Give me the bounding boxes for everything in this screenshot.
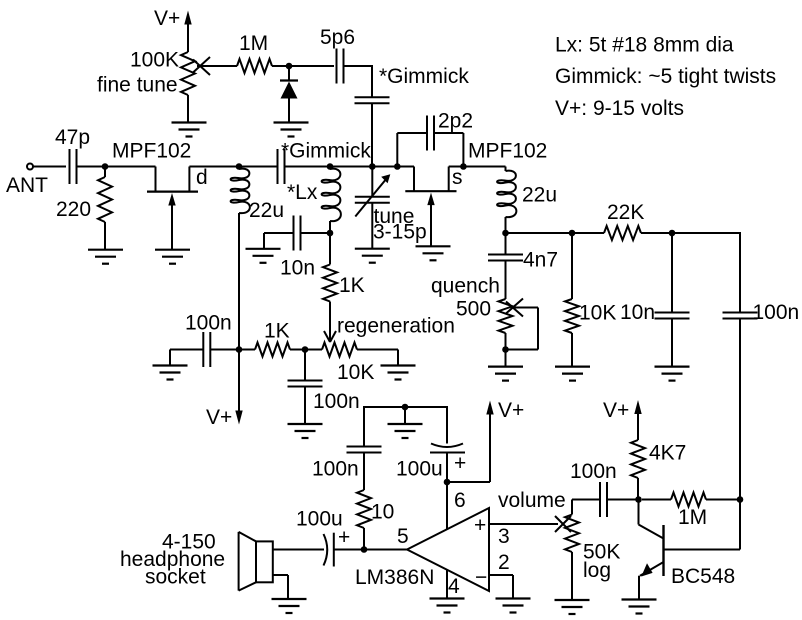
transistor Q2 gate arrow bbox=[430, 199, 432, 247]
ground under speaker bbox=[272, 599, 307, 613]
wire 47p to JFET1 bbox=[77, 166, 156, 168]
resistor 4K7 bbox=[631, 440, 645, 478]
wire 2p2 left branch bbox=[396, 133, 398, 167]
wire 4n7 to 500 pot bbox=[505, 261, 507, 300]
transistor Q3 emitter bbox=[640, 562, 664, 576]
wire 500 wiper loop bbox=[511, 307, 538, 309]
wire rail to gimmick2 bbox=[239, 166, 278, 168]
svg-text:220: 220 bbox=[56, 198, 91, 221]
wire pin3 to volume bbox=[489, 523, 558, 525]
svg-text:10n: 10n bbox=[280, 257, 315, 280]
wire 5p6 to gimmick bbox=[344, 65, 373, 67]
svg-text:MPF102: MPF102 bbox=[112, 140, 191, 163]
diode D1 ground lead bbox=[288, 98, 290, 123]
ground under pin4 bbox=[430, 599, 465, 613]
ground under 500 pot bbox=[488, 367, 523, 381]
wire 100n right down bbox=[739, 319, 741, 500]
wire 1K to 10K pot bbox=[290, 349, 322, 351]
capacitor 5p6 bbox=[336, 49, 338, 84]
wire V+ feed down bbox=[238, 350, 240, 411]
transistor Q1 MPF102 body bbox=[155, 167, 157, 192]
node junction pin6 bbox=[444, 479, 451, 486]
node junction 10K top bbox=[569, 230, 576, 237]
node junction collector bbox=[635, 496, 642, 503]
node junction rail ground stub bbox=[402, 404, 409, 411]
svg-text:3: 3 bbox=[498, 525, 510, 548]
ground under diode bbox=[274, 123, 309, 137]
node junction source bbox=[460, 163, 467, 170]
svg-text:socket: socket bbox=[145, 566, 206, 589]
svg-text:4n7: 4n7 bbox=[523, 249, 558, 272]
ground under 100K pot bbox=[172, 123, 207, 137]
ground right of 10K regen bbox=[381, 366, 416, 380]
ground under BC548 bbox=[622, 600, 657, 614]
ground under Q1 gate bbox=[155, 250, 190, 264]
wire V+ to pin6 node bbox=[447, 481, 490, 483]
inductor 22u left bbox=[231, 169, 250, 214]
resistor 1M feedback bbox=[642, 499, 671, 501]
wire tune cap top bbox=[371, 167, 373, 197]
inductor *Lx bbox=[322, 169, 341, 222]
svg-text:100n: 100n bbox=[313, 390, 360, 413]
svg-text:V+: 9-15 volts: V+: 9-15 volts bbox=[555, 97, 684, 120]
svg-text:1K: 1K bbox=[339, 274, 365, 297]
wire pin6 bbox=[446, 482, 448, 530]
wire row to 10K bbox=[506, 232, 605, 234]
svg-text:47p: 47p bbox=[55, 126, 90, 149]
wire 2p2 right branch bbox=[434, 132, 464, 134]
wire 10n to node bbox=[301, 232, 331, 234]
capacitor *Gimmick coupling bbox=[277, 149, 279, 184]
svg-text:100u: 100u bbox=[396, 458, 443, 481]
capacitor 100n supply bbox=[347, 446, 382, 448]
potentiometer 10K regen body bbox=[322, 343, 357, 357]
ground under 10n quench bbox=[655, 367, 690, 381]
wire speaker to ground bbox=[273, 574, 288, 576]
svg-text:LM386N: LM386N bbox=[355, 566, 434, 589]
svg-text:500: 500 bbox=[456, 298, 491, 321]
capacitor 47p bbox=[69, 149, 71, 184]
capacitor 100n af bbox=[599, 482, 601, 517]
svg-text:Gimmick: ~5 tight twists: Gimmick: ~5 tight twists bbox=[555, 65, 776, 88]
svg-text:*Lx: *Lx bbox=[287, 181, 318, 204]
power V+ BC548 arrow bbox=[634, 400, 641, 414]
potentiometer 500 wiper bbox=[506, 299, 523, 314]
power V+ LM386 arrow bbox=[486, 401, 493, 415]
svg-text:V+: V+ bbox=[498, 399, 524, 422]
node junction base right bbox=[737, 496, 744, 503]
capacitor 4n7 bbox=[505, 233, 507, 255]
svg-text:1K: 1K bbox=[264, 320, 290, 343]
svg-text:6: 6 bbox=[454, 489, 466, 512]
wire Q2 source to node bbox=[449, 166, 506, 168]
ground under 10n tap bbox=[246, 249, 281, 263]
capacitor 100n regen bbox=[202, 332, 204, 367]
capacitor 100u output bbox=[324, 534, 328, 566]
capacitor 10n quench bbox=[671, 233, 673, 313]
node junction gate Q2 bbox=[394, 163, 401, 170]
terminal ANT bbox=[27, 164, 33, 170]
wire 10n to ground bbox=[264, 232, 294, 234]
capacitor 100n regen bypass bbox=[304, 350, 306, 381]
node junction 47p/220 bbox=[102, 163, 109, 170]
node junction 1M/diode/5p6 bbox=[286, 63, 293, 70]
ground left of 100n regen bbox=[153, 366, 188, 380]
variable capacitor tune 3-15p bbox=[355, 196, 390, 198]
wire base branch bbox=[739, 500, 741, 550]
wire 22K to 10n2 bbox=[641, 232, 740, 234]
potentiometer 100K fine tune body bbox=[181, 52, 195, 95]
wire pot bottom to ground bbox=[187, 95, 189, 123]
node junction 10n2 top bbox=[669, 230, 676, 237]
svg-text:1M: 1M bbox=[239, 32, 268, 55]
svg-text:+: + bbox=[454, 452, 466, 475]
ground under 50K bbox=[555, 600, 590, 614]
wire 22u2 to node bbox=[505, 217, 507, 233]
svg-text:100K: 100K bbox=[130, 49, 179, 72]
ground under tune cap bbox=[355, 249, 390, 263]
svg-text:V+: V+ bbox=[154, 7, 180, 30]
svg-text:5: 5 bbox=[397, 525, 409, 548]
node junction pin5/10ohm bbox=[361, 546, 368, 553]
wire 100u to pin6 node bbox=[446, 453, 448, 483]
svg-text:MPF102: MPF102 bbox=[468, 140, 547, 163]
transistor Q2 MPF102 body bbox=[413, 167, 415, 192]
node junction 500 bottom bbox=[502, 346, 509, 353]
ground under Q2 gate bbox=[416, 246, 451, 260]
wire wiper to 1M bbox=[197, 65, 237, 67]
svg-text:1M: 1M bbox=[678, 506, 707, 529]
svg-text:quench: quench bbox=[431, 275, 500, 298]
resistor 1K regen bbox=[255, 343, 290, 357]
svg-text:V+: V+ bbox=[206, 406, 232, 429]
svg-text:22u: 22u bbox=[522, 184, 557, 207]
potentiometer 500 body bbox=[499, 299, 513, 333]
svg-text:d: d bbox=[196, 166, 208, 189]
wire ground to 100n regen bbox=[169, 350, 171, 366]
svg-text:volume: volume bbox=[498, 489, 566, 512]
potentiometer 100K wiper arrow bbox=[193, 57, 210, 73]
node junction regen tap bbox=[302, 346, 309, 353]
diode D1 bbox=[280, 79, 298, 81]
capacitor 10n tap bbox=[293, 216, 295, 251]
svg-text:22K: 22K bbox=[607, 201, 644, 224]
svg-text:−: − bbox=[475, 566, 487, 589]
wire 22u down to regen row bbox=[238, 213, 240, 350]
wire gimmick to tank rail bbox=[371, 103, 373, 166]
capacitor 2p2 bbox=[426, 116, 428, 151]
node junction drain/22u bbox=[236, 163, 243, 170]
wire LM386 top rail bbox=[363, 408, 365, 446]
wire 1M to node bbox=[272, 65, 334, 67]
svg-text:100n: 100n bbox=[185, 312, 232, 335]
svg-text:2p2: 2p2 bbox=[438, 110, 473, 133]
ground under rail bbox=[388, 424, 423, 438]
svg-text:10n: 10n bbox=[620, 301, 655, 324]
svg-text:2: 2 bbox=[498, 551, 510, 574]
wire right branch down bbox=[739, 232, 741, 313]
op-amp U1 LM386N triangle bbox=[407, 508, 489, 591]
ground under pin2 bbox=[496, 599, 531, 613]
svg-text:+: + bbox=[338, 526, 350, 549]
ground under 220 bbox=[88, 250, 123, 264]
wire rail ground stub bbox=[404, 407, 406, 424]
wire Q1 drain to node bbox=[189, 166, 239, 168]
transistor Q1 gate arrow bbox=[171, 199, 173, 250]
svg-text:V+: V+ bbox=[603, 399, 629, 422]
potentiometer 50K wiper arrow bbox=[555, 516, 571, 532]
node junction Lx bottom bbox=[327, 230, 334, 237]
node junction Lx top bbox=[327, 163, 334, 170]
svg-text:100n: 100n bbox=[570, 460, 617, 483]
capacitor 100n right bbox=[723, 312, 758, 314]
svg-text:10K: 10K bbox=[337, 361, 374, 384]
wire tune cap to ground bbox=[371, 203, 373, 249]
svg-text:ANT: ANT bbox=[6, 174, 48, 197]
svg-text:5p6: 5p6 bbox=[320, 26, 355, 49]
resistor 1M bbox=[237, 59, 272, 73]
wire gimmick2 to Lx node bbox=[285, 166, 331, 168]
diode D1 lead bbox=[288, 66, 290, 80]
wire 100n to base node bbox=[607, 499, 639, 501]
svg-text:BC548: BC548 bbox=[671, 565, 735, 588]
ground under 10K quench bbox=[555, 367, 590, 381]
wire pin5 row bbox=[334, 549, 407, 551]
node junction quench top bbox=[502, 230, 509, 237]
svg-text:4K7: 4K7 bbox=[649, 442, 686, 465]
wire 10K pot right to ground bbox=[357, 349, 398, 351]
svg-text:3-15p: 3-15p bbox=[373, 221, 427, 244]
wire Lx bottom bbox=[329, 221, 331, 233]
svg-text:100u: 100u bbox=[296, 508, 343, 531]
resistor 220 bbox=[104, 167, 106, 178]
wire ANT to 47p bbox=[33, 166, 66, 168]
resistor 10K quench bbox=[571, 233, 573, 299]
variable cap arrow bbox=[355, 178, 387, 217]
svg-text:4: 4 bbox=[448, 575, 460, 598]
svg-text:*Gimmick: *Gimmick bbox=[281, 140, 371, 163]
wire speaker to 100u bbox=[273, 549, 324, 551]
svg-text:fine tune: fine tune bbox=[97, 74, 178, 97]
node junction tune bbox=[369, 163, 376, 170]
svg-text:+: + bbox=[474, 514, 486, 537]
node junction V+ feed bbox=[236, 346, 243, 353]
svg-text:s: s bbox=[452, 166, 463, 189]
potentiometer 50K body bbox=[571, 500, 573, 515]
wire 500 bottom bbox=[505, 333, 507, 367]
resistor 1K vertical bbox=[329, 233, 331, 265]
ground under 100n regen bypass bbox=[288, 424, 323, 438]
svg-text:Lx: 5t #18 8mm dia: Lx: 5t #18 8mm dia bbox=[555, 34, 734, 57]
wire 50K top to 100n bbox=[572, 499, 600, 501]
transistor Q3 BC548 body bbox=[662, 525, 664, 576]
svg-text:22u: 22u bbox=[249, 199, 284, 222]
wire pin2 bbox=[489, 574, 513, 576]
svg-text:log: log bbox=[583, 559, 611, 582]
inductor 22u right bbox=[505, 167, 507, 172]
power V+ down arrow bbox=[235, 411, 242, 425]
svg-text:100n: 100n bbox=[753, 301, 800, 324]
capacitor *Gimmick top bbox=[355, 96, 390, 98]
resistor 10 bbox=[363, 453, 365, 491]
wire rail Lx to tune bbox=[330, 166, 414, 168]
resistor 22K bbox=[604, 226, 641, 240]
power V+ top-left arrow bbox=[184, 11, 191, 25]
svg-text:regeneration: regeneration bbox=[337, 315, 455, 338]
svg-text:100n: 100n bbox=[312, 458, 359, 481]
capacitor 100u supply bbox=[446, 406, 448, 444]
wiper arrowhead onto 10K pot bbox=[324, 331, 330, 342]
svg-text:10K: 10K bbox=[579, 302, 616, 325]
wire 100n to vplus node bbox=[210, 349, 255, 351]
svg-text:*Gimmick: *Gimmick bbox=[379, 65, 469, 88]
wire pin4 bbox=[446, 570, 448, 599]
svg-text:10: 10 bbox=[371, 501, 394, 524]
speaker headphone socket bbox=[256, 541, 273, 582]
